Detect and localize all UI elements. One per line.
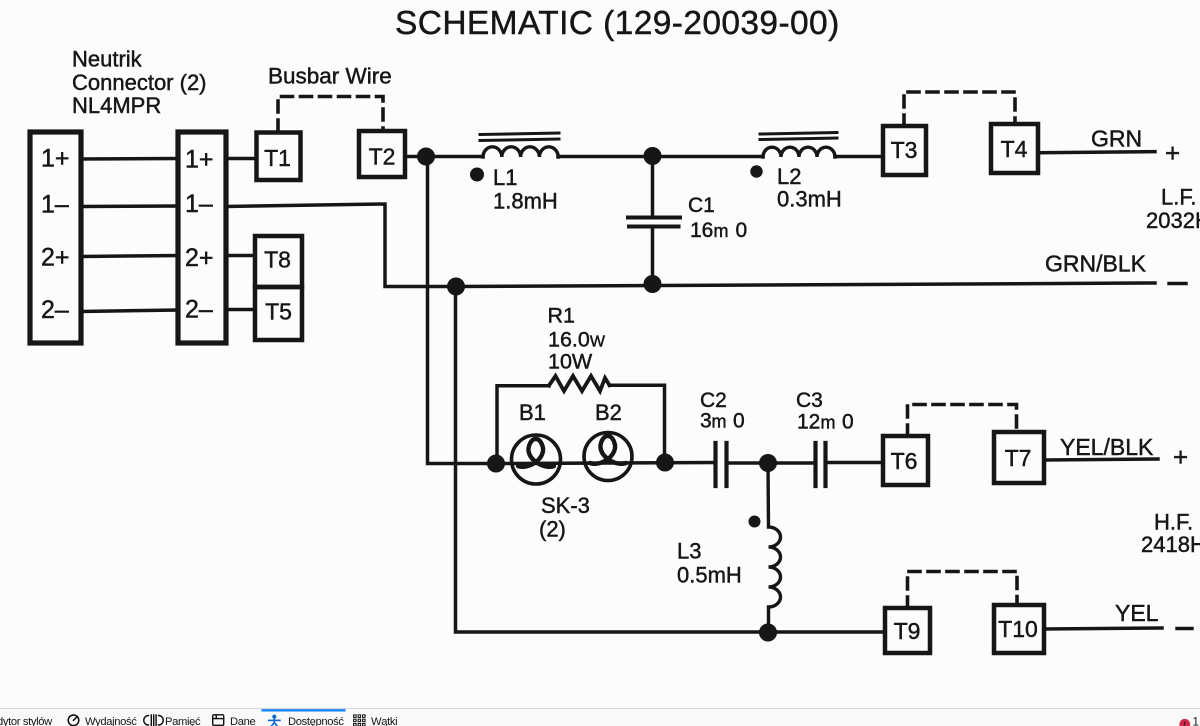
connector J1 (left NL4MPR box) <box>30 132 81 343</box>
svg-text:1–: 1– <box>185 190 213 218</box>
svg-text:SCHEMATIC (129-20039-00): SCHEMATIC (129-20039-00) <box>395 5 840 42</box>
capacitor C2 <box>713 443 717 486</box>
node H junction dot (L3 bottom) <box>759 624 777 642</box>
label C2 3m 0 <box>700 389 745 433</box>
svg-text:GRN/BLK: GRN/BLK <box>1045 251 1147 277</box>
svg-text:H.F.: H.F. <box>1154 510 1193 535</box>
resistor R1 zigzag <box>549 376 610 391</box>
svg-text:YEL/BLK: YEL/BLK <box>1060 434 1154 460</box>
terminal T7 <box>994 432 1044 483</box>
svg-text:L.F.: L.F. <box>1161 185 1196 210</box>
svg-text:C3: C3 <box>796 389 823 412</box>
wire C3 to T6 <box>828 461 883 465</box>
terminal T10 <box>994 605 1044 653</box>
label C1 value m unit <box>714 221 729 241</box>
icon Wydajnosc (gauge) <box>68 715 79 726</box>
svg-text:10W: 10W <box>548 350 593 374</box>
svg-text:2+: 2+ <box>41 244 70 272</box>
capacitor C1 <box>651 156 655 216</box>
wire J2 2+ to T8 <box>226 254 255 258</box>
label L2 0.3mH <box>777 164 842 212</box>
wire L1 to node B <box>558 155 763 159</box>
svg-text:2032H: 2032H <box>1146 208 1200 233</box>
label C1 16m 0 <box>688 194 747 242</box>
icon Dostepnosc (accessibility person, blue) <box>269 715 280 726</box>
label L3 0.5mH <box>677 539 742 588</box>
wire T2 to node A <box>405 155 483 159</box>
terminal T9 <box>885 608 930 653</box>
svg-text:3: 3 <box>700 410 712 433</box>
svg-text:T8: T8 <box>264 247 291 273</box>
label C2 value m unit <box>712 412 727 432</box>
wire J1 2- to J2 2- <box>81 310 178 312</box>
svg-text:16: 16 <box>690 219 713 242</box>
label C3 12m 0 <box>796 389 854 434</box>
node G junction dot (L3 top) <box>759 454 777 472</box>
inductor L1 <box>483 147 558 157</box>
node C junction dot <box>447 278 465 296</box>
devtools toolbar background <box>0 709 1200 726</box>
svg-text:(2): (2) <box>539 517 566 542</box>
phase dot L3 <box>749 516 761 528</box>
svg-text:T2: T2 <box>369 144 396 170</box>
svg-text:0.3mH: 0.3mH <box>777 187 842 212</box>
wire node A down to SK-3 rail <box>428 157 497 464</box>
svg-text:+: + <box>1173 442 1188 472</box>
inductor L2 core bars <box>760 133 837 135</box>
svg-text:2–: 2– <box>185 296 213 324</box>
svg-text:12: 12 <box>797 411 820 434</box>
svg-text:Connector (2): Connector (2) <box>72 70 207 95</box>
icon Pamiec (RAM) <box>144 715 164 726</box>
dashed jumper T3-T4 <box>904 92 1015 126</box>
wire T10 to YEL - output <box>1044 628 1162 629</box>
svg-text:T9: T9 <box>894 618 921 644</box>
wire GRN/BLK rail <box>456 283 1155 287</box>
svg-text:L2: L2 <box>777 164 801 189</box>
node D junction dot (C1 bottom) <box>644 275 662 293</box>
dashed jumper T9-T10 <box>908 572 1018 609</box>
svg-text:Wydajność: Wydajność <box>85 716 137 726</box>
svg-text:NL4MPR: NL4MPR <box>72 93 161 118</box>
wire J1 1+ to J2 1+ <box>81 157 178 161</box>
icon Dane (storage) <box>213 715 224 726</box>
wire node C down to bottom rail <box>456 287 884 633</box>
svg-text:T7: T7 <box>1005 445 1032 471</box>
node B junction dot (C1 top) <box>644 147 662 165</box>
node E junction dot (B1 left) <box>487 455 505 473</box>
svg-text:2418H: 2418H <box>1141 532 1200 557</box>
svg-text:T6: T6 <box>891 448 918 474</box>
svg-text:0: 0 <box>842 411 854 434</box>
svg-text:Dostępność: Dostępność <box>288 716 344 726</box>
wire J1 2+ to J2 2+ <box>81 256 178 257</box>
svg-text:2–: 2– <box>41 296 69 324</box>
svg-text:L3: L3 <box>677 539 701 564</box>
dashed jumper T6-T7 <box>908 405 1017 437</box>
terminal T1 <box>257 133 301 181</box>
label R1 16.0W 10W <box>548 304 606 374</box>
icon Watki (grid of hollow squares) <box>354 715 366 726</box>
svg-text:0: 0 <box>733 410 745 433</box>
connector J2 (right NL4MPR box) <box>178 132 226 343</box>
svg-text:L1: L1 <box>493 165 517 190</box>
svg-text:1+: 1+ <box>185 146 214 174</box>
svg-text:Pamięć: Pamięć <box>165 716 201 726</box>
active tab blue underline <box>261 709 345 711</box>
svg-text:Wątki: Wątki <box>371 716 397 726</box>
svg-text:Dane: Dane <box>230 716 255 726</box>
busbar dashed jumper T1-T2 <box>278 97 383 132</box>
resistor R1 loop right leg <box>610 385 665 462</box>
resistor R1 loop left leg <box>497 386 549 464</box>
svg-text:+: + <box>1165 138 1180 168</box>
svg-text:T4: T4 <box>1001 136 1028 162</box>
capacitor C3 <box>813 443 817 486</box>
svg-text:0: 0 <box>736 219 748 242</box>
label C3 value m unit <box>821 413 836 433</box>
svg-text:GRN: GRN <box>1091 126 1142 152</box>
svg-text:1.8mH: 1.8mH <box>493 189 558 214</box>
wire L2 to T3 <box>835 155 883 159</box>
devtools toolbar top border <box>0 707 1200 709</box>
svg-text:R1: R1 <box>548 304 575 328</box>
svg-text:1+: 1+ <box>41 145 70 173</box>
wire SK-3 rail through lamps <box>496 463 714 464</box>
svg-text:T3: T3 <box>891 137 918 163</box>
terminal T4 <box>991 124 1038 173</box>
inductor L1 core bars <box>480 133 559 135</box>
terminal T6 <box>883 436 928 485</box>
error badge red circle <box>1179 719 1190 726</box>
svg-text:dytor stylów: dytor stylów <box>0 716 53 726</box>
wire J2 1+ to T1 <box>226 157 256 161</box>
svg-text:1–: 1– <box>41 191 69 219</box>
phase dot L2 <box>750 165 762 177</box>
phase dot L1 <box>470 168 484 182</box>
svg-text:T5: T5 <box>265 299 292 325</box>
svg-text:Busbar Wire: Busbar Wire <box>268 64 392 89</box>
svg-text:YEL: YEL <box>1115 600 1159 626</box>
node A junction dot <box>417 148 435 166</box>
svg-text:m: m <box>714 221 729 241</box>
svg-text:m: m <box>712 412 727 432</box>
wire C2 to node G <box>729 461 814 465</box>
svg-text:SK-3: SK-3 <box>541 493 590 518</box>
svg-text:C1: C1 <box>688 194 715 217</box>
terminal T3 <box>883 126 926 175</box>
svg-text:!: ! <box>1183 719 1186 726</box>
label SK-3 (2) <box>539 493 590 542</box>
wire T7 to YEL/BLK + output <box>1044 459 1158 460</box>
label Neutrik Connector (2) NL4MPR <box>72 47 207 119</box>
terminal T2 <box>359 131 405 177</box>
label minus HF <box>1177 627 1192 630</box>
inductor L2 <box>763 147 835 157</box>
svg-text:m: m <box>821 413 836 433</box>
terminal T8 <box>255 236 302 287</box>
svg-text:0.5mH: 0.5mH <box>677 563 742 588</box>
svg-text:B2: B2 <box>595 400 622 425</box>
svg-text:2+: 2+ <box>185 244 214 272</box>
label L1 1.8mH <box>493 165 558 214</box>
inductor L3 <box>768 463 781 633</box>
svg-text:T10: T10 <box>998 616 1038 642</box>
svg-text:T1: T1 <box>264 145 291 171</box>
terminal T5 <box>255 287 302 340</box>
wire J2 1- to lower rail <box>226 204 456 287</box>
label minus LF <box>1169 282 1186 285</box>
svg-text:B1: B1 <box>519 400 546 425</box>
wire T4 to GRN + output <box>1038 152 1155 153</box>
svg-text:14: 14 <box>1193 716 1200 726</box>
node F junction dot (B2 right) <box>656 454 674 472</box>
svg-text:Neutrik: Neutrik <box>72 47 143 72</box>
lamp B2 <box>584 433 632 481</box>
wire J2 2- to T5 <box>226 308 255 312</box>
lamp B1 <box>512 435 561 484</box>
wire J1 1- to J2 1- <box>81 204 178 208</box>
